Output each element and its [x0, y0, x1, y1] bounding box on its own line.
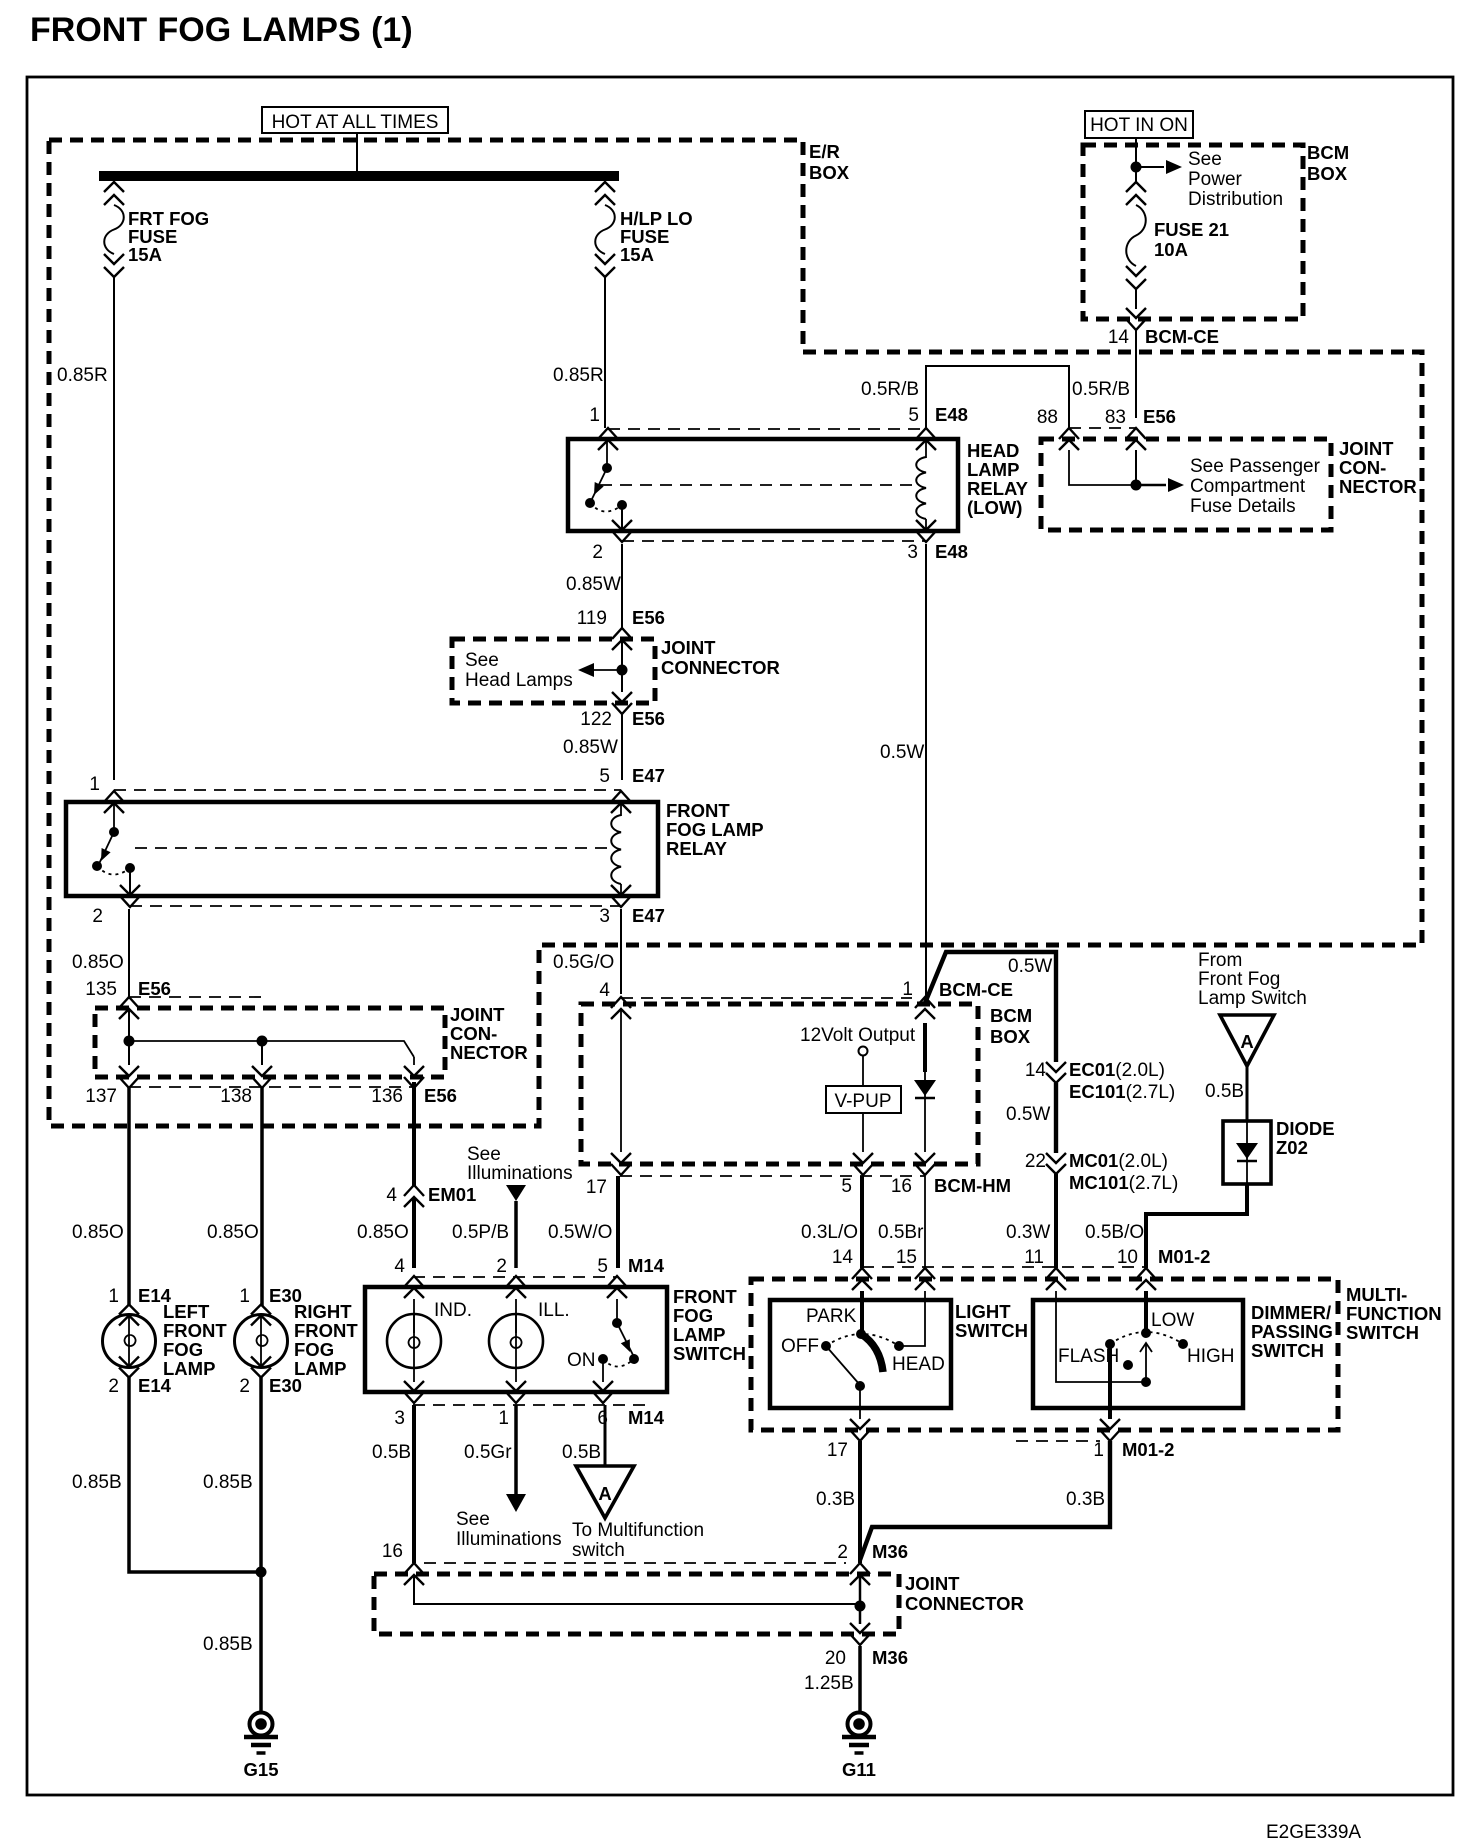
svg-text:15: 15 [896, 1247, 917, 1268]
svg-text:E56: E56 [138, 978, 171, 999]
svg-text:22: 22 [1025, 1151, 1046, 1172]
svg-text:E56: E56 [424, 1085, 457, 1106]
svg-text:Lamp Switch: Lamp Switch [1198, 988, 1307, 1009]
svg-text:0.85W: 0.85W [566, 574, 621, 595]
svg-text:FRONT: FRONT [673, 1286, 737, 1307]
svg-text:See: See [1188, 149, 1222, 170]
svg-text:JOINT: JOINT [1339, 438, 1394, 459]
svg-text:0.85R: 0.85R [57, 365, 108, 386]
svg-text:M14: M14 [628, 1407, 665, 1428]
svg-text:4: 4 [386, 1185, 397, 1206]
svg-text:FOG LAMP: FOG LAMP [666, 819, 764, 840]
svg-text:RELAY: RELAY [967, 478, 1029, 499]
svg-text:0.5Br: 0.5Br [878, 1222, 924, 1243]
svg-text:0.5W/O: 0.5W/O [548, 1222, 612, 1243]
svg-text:0.85O: 0.85O [72, 1222, 124, 1243]
svg-text:17: 17 [586, 1177, 607, 1198]
svg-text:HOT AT ALL TIMES: HOT AT ALL TIMES [272, 112, 439, 133]
svg-text:EC01(2.0L): EC01(2.0L) [1069, 1059, 1165, 1081]
svg-text:M36: M36 [872, 1541, 908, 1562]
svg-text:FOG: FOG [163, 1339, 203, 1360]
svg-text:E48: E48 [935, 541, 968, 562]
svg-text:E2GE339A: E2GE339A [1266, 1822, 1361, 1843]
svg-text:FOG: FOG [673, 1305, 713, 1326]
svg-text:Z02: Z02 [1276, 1137, 1308, 1158]
svg-text:14: 14 [832, 1247, 854, 1268]
svg-text:JOINT: JOINT [661, 637, 716, 658]
svg-text:1: 1 [498, 1408, 509, 1429]
svg-text:1: 1 [89, 774, 100, 795]
svg-text:E/R: E/R [809, 141, 840, 162]
svg-text:BCM: BCM [990, 1005, 1032, 1026]
svg-text:136: 136 [371, 1086, 403, 1107]
svg-text:0.5G/O: 0.5G/O [553, 952, 614, 973]
svg-text:0.5B: 0.5B [562, 1442, 601, 1463]
svg-text:0.85O: 0.85O [207, 1222, 259, 1243]
svg-text:5: 5 [908, 405, 919, 426]
svg-text:BOX: BOX [809, 162, 850, 183]
svg-text:4: 4 [599, 980, 610, 1001]
svg-text:0.85B: 0.85B [72, 1472, 122, 1493]
svg-text:PARK: PARK [806, 1306, 857, 1327]
svg-text:0.5R/B: 0.5R/B [861, 379, 919, 400]
svg-text:ON: ON [567, 1350, 596, 1371]
svg-text:HOT IN ON: HOT IN ON [1090, 115, 1188, 136]
svg-text:FRONT: FRONT [666, 800, 730, 821]
svg-text:14: 14 [1108, 327, 1130, 348]
svg-text:0.3B: 0.3B [816, 1489, 855, 1510]
svg-text:MC101(2.7L): MC101(2.7L) [1069, 1172, 1178, 1194]
svg-text:SWITCH: SWITCH [673, 1343, 746, 1364]
svg-text:2: 2 [496, 1256, 507, 1277]
svg-text:To Multifunction: To Multifunction [572, 1520, 704, 1541]
svg-text:0.5B/O: 0.5B/O [1085, 1222, 1144, 1243]
svg-text:Compartment: Compartment [1190, 476, 1306, 497]
svg-text:FUSE 21: FUSE 21 [1154, 219, 1229, 240]
svg-text:M01-2: M01-2 [1158, 1246, 1210, 1267]
svg-text:See Passenger: See Passenger [1190, 456, 1321, 477]
svg-text:0.5P/B: 0.5P/B [452, 1222, 509, 1243]
svg-text:switch: switch [572, 1540, 625, 1561]
svg-text:Distribution: Distribution [1188, 189, 1283, 210]
svg-text:MULTI-: MULTI- [1346, 1284, 1407, 1305]
svg-text:G15: G15 [244, 1759, 279, 1780]
svg-text:119: 119 [577, 608, 607, 629]
svg-text:1: 1 [902, 979, 913, 1000]
svg-text:M01-2: M01-2 [1122, 1439, 1174, 1460]
svg-text:E56: E56 [1143, 406, 1176, 427]
svg-text:88: 88 [1037, 407, 1058, 428]
svg-text:0.5W: 0.5W [1008, 956, 1052, 977]
svg-text:0.5B: 0.5B [372, 1442, 411, 1463]
svg-text:1: 1 [1093, 1440, 1104, 1461]
svg-text:PASSING: PASSING [1251, 1321, 1333, 1342]
svg-text:20: 20 [825, 1648, 846, 1669]
svg-text:From: From [1198, 950, 1242, 971]
svg-text:1: 1 [108, 1286, 119, 1307]
svg-text:5: 5 [841, 1176, 852, 1197]
svg-text:IND.: IND. [434, 1300, 472, 1321]
svg-text:0.85W: 0.85W [563, 737, 618, 758]
svg-text:0.3L/O: 0.3L/O [801, 1222, 858, 1243]
svg-text:BCM: BCM [1307, 142, 1349, 163]
svg-text:2: 2 [239, 1376, 250, 1397]
svg-text:SWITCH: SWITCH [1251, 1340, 1324, 1361]
svg-text:4: 4 [394, 1256, 405, 1277]
svg-text:SWITCH: SWITCH [1346, 1322, 1419, 1343]
svg-text:14: 14 [1025, 1060, 1047, 1081]
svg-text:HEAD: HEAD [892, 1354, 945, 1375]
svg-text:See: See [456, 1509, 490, 1530]
svg-text:0.3W: 0.3W [1006, 1222, 1050, 1243]
svg-text:1: 1 [589, 405, 600, 426]
svg-text:FRONT: FRONT [294, 1320, 358, 1341]
svg-text:17: 17 [827, 1440, 848, 1461]
svg-text:1: 1 [239, 1286, 250, 1307]
svg-text:EC101(2.7L): EC101(2.7L) [1069, 1081, 1175, 1103]
svg-text:138: 138 [220, 1086, 252, 1107]
svg-text:LOW: LOW [1151, 1310, 1194, 1331]
svg-text:HIGH: HIGH [1187, 1346, 1235, 1367]
svg-text:0.5W: 0.5W [880, 742, 924, 763]
svg-text:A: A [598, 1483, 611, 1504]
svg-text:FRONT FOG LAMPS (1): FRONT FOG LAMPS (1) [30, 11, 413, 49]
svg-text:1.25B: 1.25B [804, 1673, 854, 1694]
svg-text:E47: E47 [632, 905, 665, 926]
svg-text:LAMP: LAMP [673, 1324, 725, 1345]
svg-text:RIGHT: RIGHT [294, 1301, 352, 1322]
svg-text:LEFT: LEFT [163, 1301, 210, 1322]
svg-text:10: 10 [1117, 1247, 1138, 1268]
svg-text:0.5W: 0.5W [1006, 1104, 1050, 1125]
svg-text:CON-: CON- [450, 1023, 497, 1044]
svg-text:Illuminations: Illuminations [467, 1163, 573, 1184]
svg-text:See: See [465, 650, 499, 671]
svg-text:16: 16 [891, 1176, 912, 1197]
svg-text:NECTOR: NECTOR [450, 1042, 528, 1063]
svg-text:Fuse Details: Fuse Details [1190, 496, 1296, 517]
svg-text:2: 2 [92, 906, 103, 927]
svg-text:Illuminations: Illuminations [456, 1529, 562, 1550]
svg-text:0.5R/B: 0.5R/B [1072, 379, 1130, 400]
svg-text:0.85O: 0.85O [357, 1222, 409, 1243]
svg-text:NECTOR: NECTOR [1339, 476, 1417, 497]
svg-text:G11: G11 [842, 1759, 876, 1780]
svg-text:135: 135 [85, 979, 117, 1000]
svg-text:15A: 15A [128, 244, 162, 265]
svg-text:See: See [467, 1144, 501, 1165]
svg-text:HEAD: HEAD [967, 440, 1019, 461]
svg-text:V-PUP: V-PUP [834, 1091, 891, 1112]
svg-text:3: 3 [394, 1408, 405, 1429]
svg-text:E47: E47 [632, 765, 665, 786]
svg-text:10A: 10A [1154, 239, 1188, 260]
svg-text:Front Fog: Front Fog [1198, 969, 1280, 990]
svg-text:3: 3 [907, 542, 918, 563]
svg-text:E30: E30 [269, 1375, 302, 1396]
svg-text:FUNCTION: FUNCTION [1346, 1303, 1442, 1324]
svg-text:83: 83 [1105, 407, 1126, 428]
svg-text:ILL.: ILL. [538, 1300, 570, 1321]
svg-text:E56: E56 [632, 708, 665, 729]
svg-text:M36: M36 [872, 1647, 908, 1668]
svg-text:BCM-HM: BCM-HM [934, 1175, 1011, 1196]
svg-text:E14: E14 [138, 1375, 172, 1396]
svg-text:5: 5 [597, 1256, 608, 1277]
svg-text:0.85B: 0.85B [203, 1634, 253, 1655]
svg-text:0.5B: 0.5B [1205, 1081, 1244, 1102]
svg-text:(LOW): (LOW) [967, 497, 1022, 518]
svg-text:Head Lamps: Head Lamps [465, 670, 573, 691]
svg-text:BCM-CE: BCM-CE [1145, 326, 1219, 347]
svg-text:A: A [1240, 1031, 1253, 1052]
svg-text:5: 5 [599, 766, 610, 787]
svg-text:EM01: EM01 [428, 1184, 476, 1205]
svg-text:LAMP: LAMP [967, 459, 1019, 480]
svg-text:11: 11 [1024, 1247, 1044, 1268]
svg-text:E56: E56 [632, 607, 665, 628]
svg-text:122: 122 [580, 709, 612, 730]
svg-text:MC01(2.0L): MC01(2.0L) [1069, 1150, 1168, 1172]
svg-text:CONNECTOR: CONNECTOR [905, 1593, 1024, 1614]
svg-text:DIMMER/: DIMMER/ [1251, 1302, 1331, 1323]
svg-text:16: 16 [382, 1541, 403, 1562]
svg-text:0.3B: 0.3B [1066, 1489, 1105, 1510]
svg-text:0.85B: 0.85B [203, 1472, 253, 1493]
svg-text:JOINT: JOINT [905, 1573, 960, 1594]
svg-text:E48: E48 [935, 404, 968, 425]
svg-text:FRONT: FRONT [163, 1320, 227, 1341]
svg-text:0.85O: 0.85O [72, 952, 124, 973]
svg-text:CON-: CON- [1339, 457, 1386, 478]
svg-text:LIGHT: LIGHT [955, 1301, 1011, 1322]
svg-text:2: 2 [108, 1376, 119, 1397]
svg-text:DIODE: DIODE [1276, 1118, 1335, 1139]
svg-text:BOX: BOX [1307, 163, 1348, 184]
svg-text:FOG: FOG [294, 1339, 334, 1360]
svg-text:2: 2 [837, 1542, 848, 1563]
svg-text:M14: M14 [628, 1255, 665, 1276]
svg-text:CONNECTOR: CONNECTOR [661, 657, 780, 678]
svg-text:OFF: OFF [781, 1336, 819, 1357]
svg-text:137: 137 [85, 1086, 117, 1107]
svg-text:0.85R: 0.85R [553, 365, 604, 386]
svg-text:JOINT: JOINT [450, 1004, 505, 1025]
svg-text:3: 3 [599, 906, 610, 927]
svg-text:2: 2 [592, 542, 603, 563]
svg-text:15A: 15A [620, 244, 654, 265]
svg-text:BOX: BOX [990, 1026, 1031, 1047]
svg-text:0.5Gr: 0.5Gr [464, 1442, 512, 1463]
svg-text:Power: Power [1188, 169, 1243, 190]
svg-text:SWITCH: SWITCH [955, 1320, 1028, 1341]
svg-text:12Volt Output: 12Volt Output [800, 1025, 916, 1046]
svg-text:BCM-CE: BCM-CE [939, 979, 1013, 1000]
svg-text:RELAY: RELAY [666, 838, 728, 859]
